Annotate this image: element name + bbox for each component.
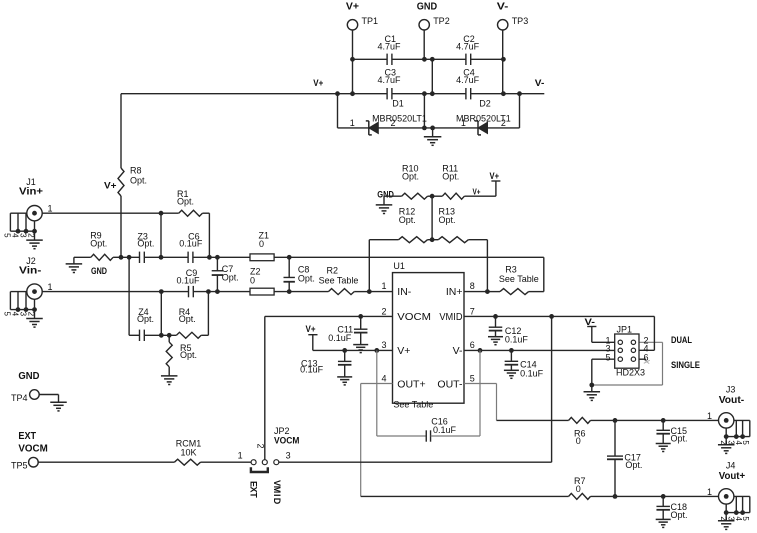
capacitor C15: [656, 420, 687, 443]
ground (C18): [656, 519, 671, 527]
wire J1 shield bus: [10, 230, 34, 232]
wire J2 pin1 to C9: [42, 291, 188, 293]
wire R12 to IN- node: [368, 240, 370, 292]
wire J4 shield stubs: [726, 496, 750, 512]
label SINGLE: [671, 360, 700, 370]
svg-text:5: 5: [741, 440, 750, 445]
capacitor C16: [426, 417, 456, 442]
wire Z1 to R3 riser: [274, 256, 544, 258]
wire J3 shield stubs: [726, 420, 750, 436]
svg-text:VOCM: VOCM: [18, 442, 48, 454]
wire top rail V- segment: [471, 58, 504, 60]
svg-text:Opt.: Opt.: [222, 273, 239, 283]
wire J3 shield top: [734, 419, 750, 421]
power flag V- (JP1): [585, 317, 597, 342]
svg-text:0.1uF: 0.1uF: [433, 425, 457, 435]
svg-text:3: 3: [18, 312, 27, 317]
svg-text:6: 6: [470, 340, 475, 350]
wire J4 shield top: [734, 495, 750, 497]
test point TP1: [347, 16, 378, 30]
svg-text:TP3: TP3: [512, 16, 529, 26]
junction dots pin6: [478, 348, 514, 353]
wire JP1 pin4 route: [636, 316, 655, 350]
svg-text:1: 1: [461, 118, 466, 128]
svg-text:D2: D2: [479, 98, 491, 108]
wire mid rail V+ segment: [121, 93, 387, 95]
svg-text:0: 0: [259, 239, 264, 249]
connector J3 Vout-: [719, 385, 745, 429]
svg-text:GND: GND: [377, 189, 394, 200]
net label V+ (top): [346, 2, 359, 13]
diode D1 MBR0520LT1: [350, 98, 427, 135]
svg-text:5: 5: [3, 312, 12, 317]
wire J1 shield top: [10, 212, 26, 214]
capacitor C13: [300, 350, 351, 376]
diode D2 MBR0520LT1: [456, 98, 511, 135]
svg-text:Opt.: Opt.: [439, 215, 456, 225]
svg-text:MBR0520LT1: MBR0520LT1: [372, 114, 427, 124]
svg-text:TP2: TP2: [433, 16, 450, 26]
net label V+ (R11): [473, 186, 481, 196]
net label V- (top): [497, 2, 509, 13]
junction dots pin7: [493, 314, 554, 319]
wire J4 shield bus: [726, 512, 750, 514]
capacitor C4: [456, 68, 480, 100]
ground (C11): [353, 345, 368, 353]
capacitor C18: [656, 496, 687, 520]
pin labels J2 shield 5 4 3 2: [3, 312, 36, 317]
pin labels J3 shield 2 3 4 5: [719, 440, 750, 445]
wire top rail GND segment: [392, 58, 466, 60]
wire top rail V+ segment: [353, 58, 388, 60]
pin labels J1 shield 5 4 3 2: [3, 233, 36, 238]
wire Vin- drop right: [207, 292, 209, 336]
svg-text:4.7uF: 4.7uF: [456, 41, 480, 51]
wire U1 pin6 V-: [464, 349, 618, 351]
svg-text:GND: GND: [417, 2, 437, 13]
svg-text:See Table: See Table: [319, 276, 359, 286]
capacitor C2: [456, 34, 480, 65]
svg-text:V+: V+: [346, 2, 359, 13]
wire TP1 stem: [352, 30, 354, 94]
ground (R9): [66, 257, 83, 272]
svg-text:7: 7: [470, 307, 475, 317]
svg-text:1: 1: [707, 487, 712, 497]
junction dots IN nodes: [367, 289, 490, 294]
test point TP4: [11, 370, 40, 403]
wire bottom rail seg2: [378, 127, 478, 129]
svg-text:0.1uF: 0.1uF: [179, 239, 203, 249]
svg-text:Opt.: Opt.: [671, 434, 688, 444]
wire VMID drop: [279, 316, 552, 462]
resistor R4: [176, 307, 208, 338]
svg-text:4: 4: [11, 312, 20, 317]
wire Vin- drop mid: [160, 292, 162, 336]
svg-text:V+: V+: [306, 324, 316, 334]
svg-text:D: D: [272, 498, 282, 505]
svg-text:0.1uF: 0.1uF: [505, 335, 529, 345]
net label V- (mid rail): [535, 78, 545, 88]
capacitor C12: [489, 316, 529, 344]
wire Z3 to node A: [144, 256, 188, 258]
wire bias node: [121, 256, 140, 258]
ground (R5): [161, 376, 178, 385]
svg-text:Opt.: Opt.: [177, 196, 194, 206]
wire R13 to IN+ node: [486, 240, 488, 292]
svg-text:2: 2: [255, 443, 265, 448]
svg-text:1: 1: [47, 204, 52, 214]
svg-text:JP1: JP1: [617, 325, 633, 335]
svg-text:4.7uF: 4.7uF: [377, 41, 401, 51]
wire R3 riser: [543, 257, 545, 291]
wire bottom rail seg1: [338, 127, 369, 129]
svg-text:VOCM: VOCM: [274, 436, 299, 447]
wire J3 shield bus: [726, 436, 750, 438]
inductor Z2: [250, 267, 274, 296]
svg-text:See Table: See Table: [499, 274, 539, 284]
junction dots J2 shield: [16, 307, 37, 312]
wire TP2 stem: [423, 30, 425, 59]
capacitor C11: [328, 316, 367, 344]
svg-text:VOCM: VOCM: [397, 311, 431, 323]
capacitor C14: [505, 350, 544, 378]
pin 1 label J2: [47, 282, 52, 292]
capacitor C6: [179, 232, 203, 264]
pin numbers U1 left: [381, 281, 386, 384]
wire right riser V-: [519, 94, 521, 128]
svg-text:TP5: TP5: [11, 461, 28, 471]
svg-text:HD2X3: HD2X3: [616, 368, 645, 378]
svg-text:Opt.: Opt.: [298, 274, 315, 284]
junction dots J4 shield: [724, 510, 745, 515]
ground (J4): [718, 513, 735, 530]
svg-text:R8: R8: [130, 166, 142, 176]
wire U1 pin4 OUT+: [361, 383, 393, 385]
svg-text:4: 4: [381, 374, 386, 384]
test point TP5: [11, 430, 48, 470]
pin numbers U1 right: [470, 281, 475, 384]
jumper JP1 HD2X3: [615, 325, 645, 378]
wire JP1 pin5: [592, 359, 618, 385]
svg-text:D1: D1: [392, 98, 404, 108]
capacitor Z3: [137, 232, 154, 264]
svg-text:Opt.: Opt.: [90, 238, 107, 248]
junction dots Vout-: [613, 418, 666, 423]
wire U1 pin7 VMID: [464, 315, 654, 317]
pin 1 label J3: [707, 411, 712, 421]
wire C6 to Z1: [193, 256, 250, 258]
capacitor C17: [607, 420, 642, 496]
svg-text:10K: 10K: [180, 447, 196, 457]
junction dot C11: [358, 314, 363, 319]
svg-text:6: 6: [644, 352, 649, 362]
svg-text:4.7uF: 4.7uF: [456, 75, 480, 85]
svg-text:R3: R3: [505, 265, 517, 275]
wire U1 pin8: [464, 291, 487, 293]
wire Vin- drop left: [128, 257, 130, 335]
svg-text:T: T: [249, 492, 259, 498]
pin labels JP1 left: [605, 335, 610, 362]
wire C16 riser to V-: [479, 350, 481, 436]
wire J2 shield top: [10, 291, 26, 293]
svg-text:0.1uF: 0.1uF: [328, 333, 352, 343]
pin labels JP1 right: [644, 335, 649, 362]
junction dot JP1 ground: [589, 383, 594, 388]
resistor R9: [74, 230, 121, 260]
pin labels JP2: [238, 443, 291, 460]
ground (JP1): [584, 385, 601, 400]
ground (R10): [376, 196, 393, 213]
svg-text:Opt.: Opt.: [179, 314, 196, 324]
svg-text:JP2: JP2: [274, 426, 290, 436]
ground (TP4): [50, 402, 67, 411]
svg-text:GND: GND: [91, 266, 107, 277]
wire R1 right drop: [208, 213, 210, 257]
net label GND (R10): [377, 189, 394, 200]
svg-text:1: 1: [350, 118, 355, 128]
label VMID (JP2): [272, 480, 282, 505]
svg-text:Opt.: Opt.: [130, 176, 147, 186]
wire JP1 pin6 stub: [636, 359, 650, 363]
svg-text:IN-: IN-: [397, 286, 412, 298]
svg-text:Vin+: Vin+: [19, 185, 43, 197]
wire RCM1 to JP2: [201, 461, 252, 463]
svg-text:V-: V-: [535, 78, 545, 88]
net label GND (top): [417, 2, 437, 13]
wire R2 to U1 pin1: [369, 291, 392, 293]
ground (J2): [26, 310, 43, 328]
svg-text:OUT-: OUT-: [437, 378, 463, 390]
svg-text:2: 2: [381, 307, 386, 317]
svg-text:VMID: VMID: [439, 311, 462, 323]
svg-text:Opt.: Opt.: [442, 171, 459, 181]
svg-text:IN+: IN+: [446, 286, 463, 298]
wire J1 shield stubs: [10, 213, 34, 231]
resistor R7: [569, 476, 719, 499]
wire V+ riser to C16: [376, 350, 378, 436]
wire V+ feed down: [120, 94, 122, 258]
svg-text:4.7uF: 4.7uF: [377, 75, 401, 85]
resistor R12: [369, 207, 438, 243]
svg-text:R2: R2: [327, 265, 339, 275]
svg-text:GND: GND: [18, 370, 39, 382]
svg-text:OUT+: OUT+: [397, 378, 425, 390]
resistor R6: [569, 417, 719, 446]
svg-text:1: 1: [238, 451, 243, 461]
capacitor C7: [212, 257, 239, 291]
svg-text:SINGLE: SINGLE: [671, 360, 700, 370]
wire TP3 stem: [502, 30, 504, 94]
svg-text:Vout-: Vout-: [719, 394, 745, 406]
junction dots J1 shield: [16, 229, 37, 234]
net label GND (R9): [91, 266, 107, 277]
label DUAL: [671, 335, 692, 345]
svg-text:Opt.: Opt.: [671, 510, 688, 520]
svg-text:Opt.: Opt.: [137, 314, 154, 324]
svg-text:0.1uF: 0.1uF: [300, 365, 324, 375]
svg-text:3: 3: [286, 451, 291, 461]
capacitor C9: [177, 268, 201, 297]
svg-text:5: 5: [3, 233, 12, 238]
wire J2 shield bus: [10, 309, 34, 311]
svg-text:V+: V+: [313, 78, 323, 88]
svg-text:2: 2: [26, 312, 35, 317]
jumper JP2 VOCM: [251, 426, 299, 465]
wire Z4 to node: [144, 334, 176, 336]
resistor RCM1: [174, 438, 201, 465]
svg-text:8: 8: [470, 281, 475, 291]
resistor R1: [161, 189, 209, 216]
svg-text:0.1uF: 0.1uF: [177, 275, 201, 285]
wire mid rail GND segment: [392, 93, 466, 95]
wire TP5 to RCM1: [38, 461, 174, 463]
svg-text:0: 0: [576, 436, 581, 446]
ground (J1): [26, 231, 43, 249]
svg-text:See Table: See Table: [393, 400, 433, 410]
wire U1 pin5 OUT-: [464, 383, 497, 385]
junction dots Vin- line: [159, 289, 292, 337]
ground (C12): [488, 337, 503, 345]
svg-text:0.1uF: 0.1uF: [520, 368, 544, 378]
connector J4 Vout+: [719, 461, 746, 505]
wire rail jog GND: [431, 59, 433, 93]
op-amp U1 body: [393, 261, 465, 410]
test point TP3: [498, 16, 529, 30]
wire R10-R12 link: [431, 196, 433, 240]
resistor R11: [432, 163, 496, 199]
wire J1 pin1 to node: [42, 212, 161, 214]
ground (power section): [424, 128, 442, 145]
ground (C14): [504, 370, 519, 378]
svg-text:TP4: TP4: [11, 393, 28, 403]
svg-text:0: 0: [576, 484, 581, 494]
connector J2 Vin-: [19, 256, 42, 299]
wire C16 right: [431, 435, 480, 437]
inductor Z1: [250, 231, 274, 261]
svg-text:DUAL: DUAL: [671, 335, 692, 345]
resistor R8: [118, 166, 147, 197]
wire left riser V+: [337, 94, 339, 128]
svg-text:Opt.: Opt.: [180, 350, 197, 360]
svg-text:1: 1: [381, 281, 386, 291]
svg-text:V-: V-: [453, 345, 463, 357]
wire JP1 pin1: [592, 341, 618, 343]
svg-text:V+: V+: [104, 181, 117, 192]
svg-text:V+: V+: [490, 171, 500, 181]
label EXT (JP2): [249, 481, 259, 498]
svg-text:3: 3: [18, 233, 27, 238]
wire JP1 pin2 route: [592, 342, 663, 385]
wire C9 to Z2: [193, 291, 250, 293]
svg-text:5: 5: [741, 516, 750, 521]
svg-text:V+: V+: [397, 345, 410, 357]
svg-text:V-: V-: [497, 2, 509, 13]
svg-text:J3: J3: [726, 385, 736, 395]
junction dots top rails: [335, 57, 522, 130]
junction dots Vout+: [613, 494, 666, 499]
wire Vout+ line: [361, 495, 569, 497]
svg-text:5: 5: [605, 352, 610, 362]
wire OUT- drop: [496, 384, 498, 421]
jumper shunt JP2: [251, 467, 268, 472]
pin names U1 left: [397, 286, 431, 391]
pin names U1 right: [437, 286, 463, 391]
svg-text:V-: V-: [585, 317, 596, 327]
svg-text:EXT: EXT: [18, 430, 36, 442]
junction dots J3 shield: [724, 434, 745, 439]
net label V+ (mid rail): [313, 78, 323, 88]
svg-text:Opt.: Opt.: [399, 215, 416, 225]
svg-text:4: 4: [11, 233, 20, 238]
power flag V+ (R11): [490, 171, 501, 196]
junction dot R12/R13: [430, 237, 435, 242]
svg-text:J4: J4: [726, 461, 736, 471]
svg-text:M: M: [272, 486, 282, 494]
junction dots pin3: [342, 348, 379, 353]
wire node A drop: [160, 213, 162, 257]
wire C16 left: [377, 435, 426, 437]
capacitor C1: [377, 34, 401, 65]
wire Z2 to R2: [274, 291, 328, 293]
pin labels J4 shield 2 3 4 5: [719, 516, 750, 521]
svg-text:U1: U1: [393, 261, 405, 271]
svg-text:I: I: [272, 494, 282, 497]
svg-text:2: 2: [390, 118, 395, 128]
pin 1 label J1: [47, 204, 52, 214]
svg-text:Vout+: Vout+: [719, 470, 746, 482]
net label V+ (R8): [104, 181, 117, 192]
svg-text:0: 0: [250, 275, 255, 285]
connector J1 Vin+: [19, 177, 43, 221]
wire OUT+ drop: [360, 384, 362, 497]
svg-text:1: 1: [47, 282, 52, 292]
svg-text:Opt.: Opt.: [137, 239, 154, 249]
capacitor C3: [377, 68, 401, 100]
svg-text:3: 3: [381, 340, 386, 350]
capacitor Z4: [137, 307, 154, 341]
svg-text:2: 2: [26, 233, 35, 238]
wire GND drop: [423, 94, 425, 128]
ground (C13): [337, 377, 352, 385]
wire Vout- line: [497, 419, 569, 421]
wire U1 pin2 VOCM: [265, 315, 393, 317]
resistor R2: [319, 265, 370, 294]
wire bottom rail seg3: [488, 127, 520, 129]
svg-text:5: 5: [470, 374, 475, 384]
resistor R13: [438, 207, 487, 243]
power flag V+ (pin3): [306, 324, 318, 350]
resistor R5: [166, 335, 197, 375]
test point TP2: [419, 16, 450, 30]
svg-text:1: 1: [707, 411, 712, 421]
wire U1 pin3: [313, 349, 393, 351]
ground (J3): [718, 437, 735, 454]
pin 1 label J4: [707, 487, 712, 497]
junction dots line B: [119, 211, 292, 260]
ground (C15): [656, 444, 671, 452]
svg-text:Vin-: Vin-: [19, 264, 42, 276]
resistor R3: [487, 265, 543, 295]
svg-text:Opt.: Opt.: [402, 171, 419, 181]
wire mid rail V- segment: [471, 93, 545, 95]
junction dot R10/R11: [430, 194, 435, 199]
svg-text:Opt.: Opt.: [625, 460, 642, 470]
wire TP4 to ground: [39, 395, 58, 403]
wire VOCM drop to JP2: [264, 316, 266, 459]
svg-text:V+: V+: [473, 186, 481, 196]
resistor R10: [384, 163, 432, 199]
svg-text:TP1: TP1: [362, 16, 379, 26]
